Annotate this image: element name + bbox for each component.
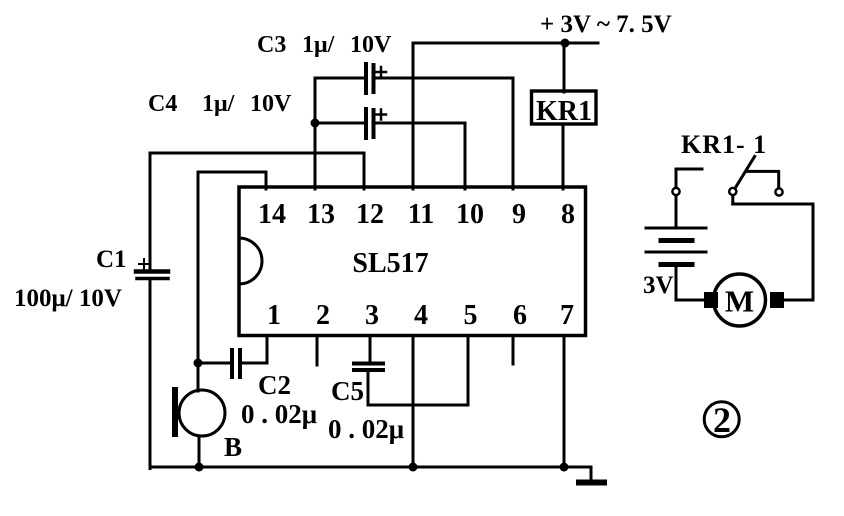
node: supply rail / KR1 junction: [561, 39, 570, 48]
svg-text:11: 11: [408, 199, 434, 230]
svg-text:C3: C3: [257, 32, 286, 58]
node: C4 / pin13 riser junction: [311, 119, 320, 128]
svg-text:1μ/: 1μ/: [302, 32, 335, 58]
svg-text:B: B: [224, 432, 242, 462]
svg-text:2: 2: [713, 400, 731, 440]
node: pin7 / rail junction: [560, 463, 569, 472]
node: pin4 / rail junction: [409, 463, 418, 472]
switch KR1-1 left contact: [672, 169, 702, 228]
motor M: [704, 274, 784, 326]
svg-text:7: 7: [560, 300, 574, 331]
svg-text:0 . 02μ: 0 . 02μ: [241, 399, 317, 429]
svg-text:10: 10: [456, 199, 484, 230]
svg-text:C5: C5: [331, 376, 364, 406]
switch KR1-1 right contact: [746, 171, 783, 195]
wire: motor loop to switch: [733, 204, 813, 300]
label: C3 1u/10V: [257, 32, 392, 58]
wire: bottom ground rail: [150, 466, 591, 469]
wire: C1 top lead: [149, 153, 152, 270]
wire: C2 up to pin 1: [266, 336, 269, 363]
capacitor C5: [354, 336, 383, 405]
ground: [576, 467, 607, 486]
svg-text:10V: 10V: [350, 32, 392, 58]
wire: pin 13 riser: [314, 78, 317, 189]
svg-text:C4: C4: [148, 91, 177, 117]
wire: +3V supply rail: [413, 42, 598, 45]
svg-text:14: 14: [258, 199, 286, 230]
svg-text:3: 3: [365, 300, 379, 331]
wire: C5 to pin 5: [368, 336, 468, 405]
svg-text:C1: C1: [96, 246, 127, 273]
wire: pin 2 stub: [316, 336, 319, 365]
svg-text:9: 9: [512, 199, 526, 230]
svg-text:0 . 02μ: 0 . 02μ: [328, 414, 404, 444]
capacitor C4: [315, 109, 465, 138]
wire: C4 down to pin 10: [464, 123, 467, 189]
wire: mic net to pin 14: [198, 172, 266, 189]
battery 3V: [646, 228, 706, 300]
capacitor C3: [315, 64, 513, 93]
wire: C3 down to pin 9: [512, 78, 515, 189]
label: C4 1u/10V: [148, 91, 292, 117]
svg-text:+ 3V ~ 7. 5V: + 3V ~ 7. 5V: [540, 11, 672, 38]
wire: pin 4 down to rail: [412, 336, 415, 467]
wire: KR1 coil to pin 8: [562, 124, 565, 189]
svg-text:13: 13: [307, 199, 335, 230]
wire: junction down to KR1 coil: [563, 43, 566, 92]
svg-text:KR1: KR1: [536, 96, 592, 127]
svg-text:100μ/ 10V: 100μ/ 10V: [14, 285, 122, 312]
node: C2 / mic junction: [194, 359, 203, 368]
wire: pin 7 down to rail: [563, 336, 566, 467]
svg-text:2: 2: [316, 300, 330, 331]
svg-text:5: 5: [464, 300, 478, 331]
svg-text:4: 4: [414, 300, 428, 331]
wire: pin 6 stub: [512, 336, 515, 364]
svg-text:10V: 10V: [250, 91, 292, 117]
svg-text:3V: 3V: [643, 272, 674, 299]
svg-text:12: 12: [356, 199, 384, 230]
microphone B: [172, 363, 225, 467]
capacitor C2: [198, 350, 267, 377]
svg-text:M: M: [725, 284, 754, 319]
svg-text:1μ/: 1μ/: [202, 91, 235, 117]
svg-text:C2: C2: [258, 370, 291, 400]
wire: rail down to pin 11: [412, 43, 415, 189]
IC notch: [239, 238, 262, 284]
svg-text:SL517: SL517: [352, 248, 428, 279]
capacitor C1: [136, 259, 168, 279]
wire: battery to motor: [676, 299, 704, 302]
wire: C1 bottom lead: [149, 279, 152, 469]
wire: C1 net to pin 12: [150, 153, 364, 189]
op-amp U1 IC SL517 body: [239, 187, 586, 336]
node: mic / ground rail junction: [195, 463, 204, 472]
svg-text:6: 6: [513, 300, 527, 331]
switch KR1-1 moving arm: [729, 157, 754, 205]
relay coil KR1: [532, 91, 597, 127]
figure number 2: [704, 400, 739, 440]
svg-text:1: 1: [267, 300, 281, 331]
wire: mic net riser: [197, 172, 200, 363]
svg-text:8: 8: [561, 199, 575, 230]
